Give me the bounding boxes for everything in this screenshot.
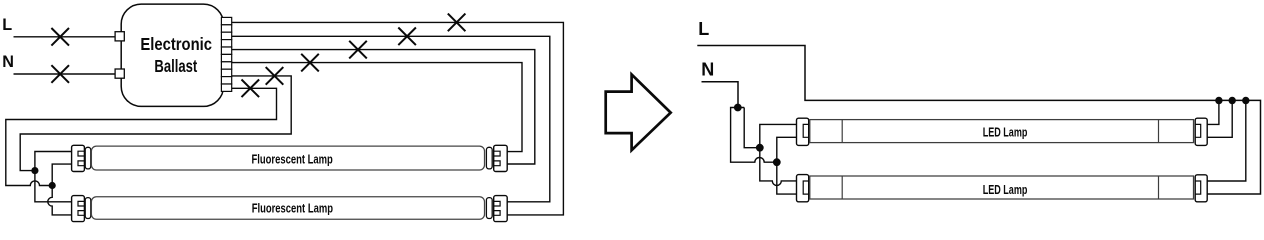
ballast label bbox=[140, 34, 212, 76]
svg-text:Fluorescent Lamp: Fluorescent Lamp bbox=[252, 151, 333, 166]
svg-text:N: N bbox=[2, 53, 14, 71]
lamp1 right socket bbox=[494, 145, 508, 171]
fluorescent lamp LAMP1 bbox=[72, 145, 508, 171]
svg-text:LED Lamp: LED Lamp bbox=[983, 182, 1028, 197]
disconnect X bbox=[242, 80, 260, 98]
lamp2 right socket bi-pin contacts bbox=[494, 201, 500, 215]
lamp1 left socket bi-pin contacts bbox=[78, 151, 84, 166]
lamp3 right socket bbox=[1195, 118, 1207, 145]
wire ballast pin4 to lamp1 right upper pin bbox=[232, 63, 522, 152]
wire ballast pin6 around outer left to junction dot J2 (hop over J1 leg) bbox=[6, 88, 277, 185]
disconnect X bbox=[266, 67, 284, 85]
lamp3 tube bbox=[810, 120, 1194, 143]
wire bus dot D3 to lamp4 right upper pin bbox=[1207, 101, 1246, 182]
fluorescent lamp LAMP2 bbox=[72, 196, 508, 222]
junction dot D3 bbox=[1242, 97, 1249, 104]
svg-text:N: N bbox=[701, 59, 714, 79]
svg-text:Electronic: Electronic bbox=[140, 34, 212, 54]
wire J2 to lamp2 left lower pin (hop over crossing wire) bbox=[48, 186, 72, 215]
wire N to ballast bbox=[14, 73, 116, 75]
lamp4 left cap divider bbox=[841, 176, 843, 199]
svg-text:Fluorescent Lamp: Fluorescent Lamp bbox=[252, 201, 333, 216]
lamp1 right socket bi-pin contacts bbox=[494, 151, 500, 166]
junction dot J1 bbox=[31, 167, 38, 174]
lamp2 left socket bi-pin contacts bbox=[78, 201, 84, 215]
wire ballast pin5 around left to junction dot J1 bbox=[20, 76, 291, 171]
lamp3 right cap divider bbox=[1158, 120, 1160, 143]
wire N feed down to junction dot A bbox=[702, 82, 739, 108]
wire L feed to top bus and down to lamp2 right lower pin bbox=[697, 46, 1260, 195]
wire bus dot D1 to lamp3 right upper pin bbox=[1207, 101, 1219, 125]
svg-text:L: L bbox=[2, 16, 12, 34]
junction dot J2 bbox=[49, 182, 56, 189]
LED lamp LAMP4 bbox=[797, 175, 1208, 202]
lamp4 left socket bbox=[797, 175, 809, 202]
wire dot B to LED lamp2 upper pin (hop under dot C leg) bbox=[760, 148, 797, 186]
lamp3 left socket pin contacts bbox=[803, 124, 809, 137]
lamp3 right socket pin contacts bbox=[1195, 124, 1201, 137]
wire dot C to LED lamp2 lower pin bbox=[777, 162, 797, 194]
lamp1 left socket bbox=[72, 145, 85, 171]
lamp1 left end cap bbox=[85, 147, 91, 169]
wire bus dot D2 to lamp3 right lower pin bbox=[1207, 101, 1232, 138]
lamp2 left end cap bbox=[85, 198, 91, 219]
disconnect X bbox=[349, 41, 367, 59]
svg-text:L: L bbox=[698, 19, 709, 39]
wire dot A right branch to dot B bbox=[744, 108, 760, 148]
wire dot C to LED lamp1 lower pin bbox=[777, 137, 797, 162]
lamp3 left socket bbox=[797, 118, 809, 145]
disconnect X bbox=[398, 28, 416, 46]
lamp4 right cap divider bbox=[1158, 176, 1160, 199]
wire L to ballast bbox=[14, 36, 116, 38]
ballast output pin block bbox=[221, 17, 231, 91]
wire ballast pin3 to lamp1 right lower pin bbox=[232, 50, 535, 164]
lamp2 tube bbox=[91, 197, 484, 220]
wire J1 to lamp1 left upper pin bbox=[35, 152, 72, 171]
lamp2 right socket bbox=[494, 196, 508, 222]
lamp1 tube bbox=[91, 146, 484, 170]
disconnect X bbox=[448, 14, 466, 32]
junction dot C bbox=[773, 158, 781, 166]
wire J2 to lamp1 left lower pin bbox=[52, 164, 71, 185]
junction dot D2 bbox=[1229, 97, 1236, 104]
lamp4 left socket pin contacts bbox=[803, 181, 809, 194]
LED lamp LAMP3 bbox=[797, 118, 1208, 145]
lamp1 right end cap bbox=[486, 147, 492, 169]
lamp2 left socket bbox=[72, 196, 85, 222]
junction dot B bbox=[756, 144, 764, 152]
lamp2 right end cap bbox=[486, 198, 492, 219]
wire dot B to LED lamp1 upper pin bbox=[760, 124, 797, 147]
lamp3 left cap divider bbox=[841, 120, 843, 143]
wire ballast pin1 to lamp2 right lower pin bbox=[232, 22, 564, 215]
wire ballast pin2 to lamp2 right upper pin bbox=[232, 36, 550, 202]
svg-text:Ballast: Ballast bbox=[154, 56, 197, 76]
wire dot A left branch to dot C (hop over dot B leg) bbox=[731, 108, 777, 163]
wire J1 to lamp2 left upper pin bbox=[35, 171, 72, 202]
lamp4 tube bbox=[810, 176, 1194, 199]
disconnect X on L wire bbox=[51, 28, 69, 46]
junction dot A bbox=[734, 104, 742, 112]
electronic ballast U1 body bbox=[121, 4, 223, 106]
disconnect X bbox=[301, 54, 319, 72]
conversion arrow bbox=[606, 75, 671, 151]
ballast input pin (L) bbox=[115, 32, 124, 41]
lamp4 right socket pin contacts bbox=[1195, 181, 1201, 194]
ballast input pin (N) bbox=[115, 69, 124, 78]
junction dot D1 bbox=[1215, 97, 1222, 104]
svg-text:LED Lamp: LED Lamp bbox=[983, 124, 1028, 139]
disconnect X on N wire bbox=[51, 65, 69, 83]
lamp4 right socket bbox=[1195, 175, 1207, 202]
